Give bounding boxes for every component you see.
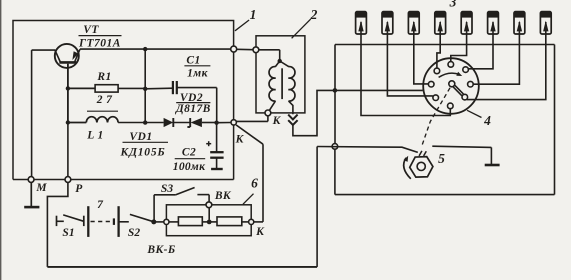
- svg-text:ВК-Б: ВК-Б: [146, 244, 175, 256]
- svg-text:6: 6: [251, 176, 258, 191]
- svg-text:S3: S3: [161, 183, 173, 195]
- svg-text:2 7: 2 7: [96, 94, 113, 106]
- svg-text:Д817В: Д817В: [175, 103, 211, 115]
- svg-text:VD1: VD1: [129, 131, 152, 143]
- svg-text:К: К: [255, 226, 265, 238]
- svg-text:К: К: [235, 134, 245, 146]
- svg-text:VT: VT: [83, 24, 99, 36]
- svg-text:4: 4: [483, 113, 491, 128]
- svg-text:S2: S2: [128, 227, 140, 239]
- svg-text:КД105Б: КД105Б: [119, 146, 165, 158]
- svg-text:Р: Р: [75, 183, 83, 195]
- svg-text:1: 1: [250, 7, 257, 22]
- svg-text:ВК: ВК: [214, 190, 232, 202]
- svg-text:ГТ701А: ГТ701А: [78, 38, 121, 50]
- svg-text:С2: С2: [182, 147, 196, 159]
- svg-text:100мк: 100мк: [173, 161, 206, 173]
- svg-text:R1: R1: [96, 71, 111, 83]
- svg-text:S1: S1: [62, 227, 74, 239]
- svg-text:L 1: L 1: [86, 130, 103, 142]
- svg-text:М: М: [35, 182, 47, 194]
- svg-text:3: 3: [449, 0, 457, 9]
- svg-text:С1: С1: [186, 55, 200, 67]
- svg-text:1мк: 1мк: [187, 67, 208, 79]
- svg-text:К: К: [272, 115, 282, 127]
- svg-text:5: 5: [438, 151, 445, 166]
